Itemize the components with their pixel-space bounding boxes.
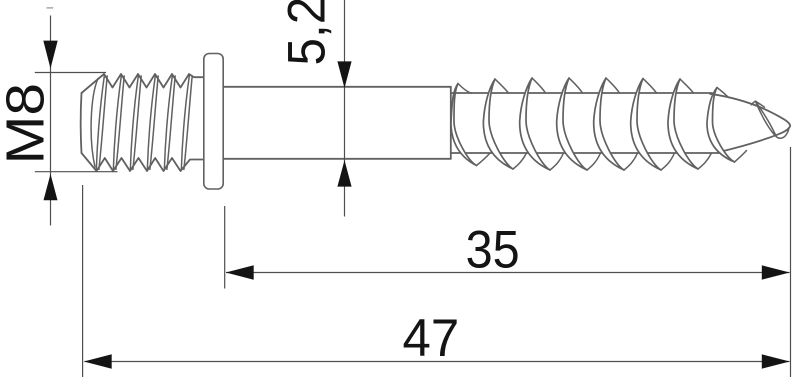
- wood thread crest 2: [483, 79, 513, 169]
- wood thread back edges bottom: [477, 153, 712, 170]
- wood thread core bottom line: [451, 152, 719, 154]
- dimension M8 arrow bottom: [44, 174, 58, 200]
- shank end junction: [450, 87, 452, 159]
- machine thread chamfered left end: [81, 79, 98, 168]
- screw point cone: [710, 94, 790, 153]
- wood thread crest 7: [668, 79, 698, 169]
- flange collar: [204, 54, 223, 190]
- dimension M8 extension line bottom: [35, 171, 118, 173]
- wood thread crest 3: [520, 78, 550, 170]
- label 47: [403, 309, 460, 368]
- dimension 5,2 arrow bottom: [337, 160, 351, 186]
- label M8: [0, 83, 55, 165]
- label 35: [466, 220, 520, 279]
- svg-text:47: 47: [403, 309, 460, 368]
- dimension 47 line: [85, 361, 790, 363]
- wood thread back edges top: [458, 78, 694, 93]
- dimension 35 line: [226, 272, 790, 274]
- wood thread crest 4: [557, 78, 587, 170]
- wood thread crest 1: [451, 84, 477, 166]
- dimension 47 extension line left: [82, 185, 84, 377]
- thread tip crest on cone: [751, 101, 788, 138]
- wood thread core top line: [451, 92, 712, 94]
- machine thread flank lines: [96, 75, 192, 171]
- dimension M8 line: [50, 16, 52, 226]
- smooth shank bottom edge: [223, 158, 451, 160]
- wood thread crest 5: [594, 78, 624, 170]
- label 5,2: [277, 0, 336, 66]
- dimension 35 extension line left: [224, 206, 226, 289]
- wood thread crest 6: [631, 79, 661, 171]
- dimension 5,2 line: [344, 0, 346, 217]
- dimension M8 extension line top: [35, 72, 106, 74]
- svg-text:M8: M8: [0, 83, 55, 165]
- svg-text:35: 35: [466, 220, 520, 279]
- dimension 47 arrow left: [84, 354, 112, 368]
- dimension 47 arrow right: [762, 354, 790, 368]
- machine thread M8 top profile: [82, 74, 204, 93]
- faint mark above M8 dimension: [47, 7, 54, 9]
- dimension 35 arrow left: [226, 265, 254, 279]
- dimension 35 arrow right: [762, 265, 790, 279]
- wood thread crest 8: [707, 88, 747, 163]
- dimension 5,2 arrow top: [337, 61, 351, 88]
- machine thread M8 bottom profile: [82, 153, 204, 171]
- svg-text:5,2: 5,2: [277, 0, 336, 66]
- dimension M8 arrow top: [43, 41, 57, 69]
- smooth shank top edge: [223, 86, 451, 88]
- extension line right shared: [790, 147, 792, 377]
